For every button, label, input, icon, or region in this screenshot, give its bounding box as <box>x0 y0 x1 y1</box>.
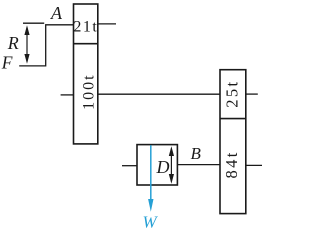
gear block left (21t / 100t) <box>74 4 98 144</box>
svg-text:25t: 25t <box>223 79 242 107</box>
svg-text:W: W <box>143 213 159 231</box>
wire stub left of drum D <box>122 165 137 167</box>
dimension arrow D <box>169 146 174 184</box>
shaft line 100t to 25t <box>98 93 220 95</box>
wire extension tick at shaft A level <box>23 22 44 24</box>
svg-text:D: D <box>156 157 170 177</box>
svg-text:F: F <box>1 53 13 73</box>
wire stub right of 21t <box>98 23 116 25</box>
svg-text:100t: 100t <box>81 73 98 109</box>
gear block right (25t / 84t) <box>220 70 246 214</box>
svg-text:A: A <box>50 3 63 23</box>
wire stub left of 100t <box>61 94 74 96</box>
crank arm with handle F <box>19 25 73 66</box>
svg-text:B: B <box>191 144 202 163</box>
svg-text:84t: 84t <box>222 150 241 178</box>
wire stub right of 25t <box>246 93 258 95</box>
wire stub right of 84t <box>246 164 262 166</box>
dimension arrow R <box>24 25 29 64</box>
force arrow W (cable) <box>148 145 153 212</box>
svg-text:21t: 21t <box>73 19 98 36</box>
shaft line D to 84t <box>177 164 220 166</box>
svg-text:R: R <box>7 33 19 53</box>
drum box D <box>137 145 177 185</box>
